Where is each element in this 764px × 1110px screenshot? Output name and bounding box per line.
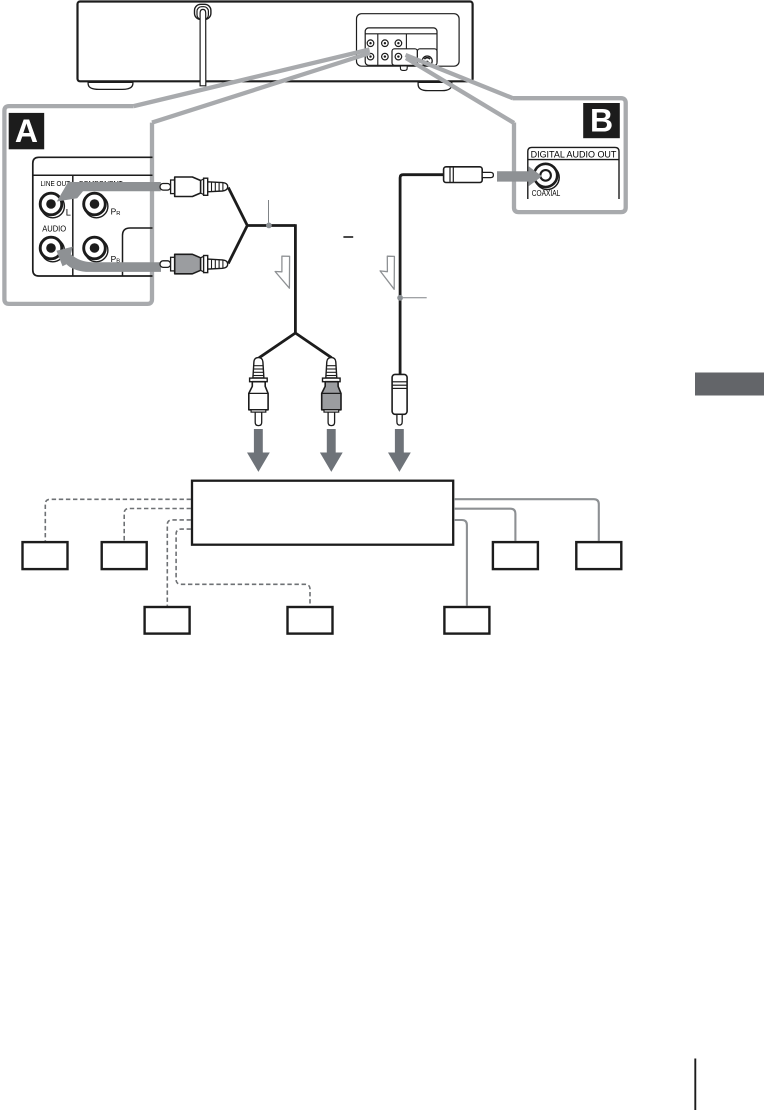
power cord <box>200 9 206 85</box>
jack Pb <box>382 53 389 60</box>
label B block <box>583 102 620 138</box>
SEC-PANEL-B <box>497 98 626 212</box>
solid wire S2 <box>454 509 515 541</box>
solid wire S3 <box>454 520 467 606</box>
audio cable Y wires <box>228 188 295 264</box>
speaker box 1 <box>23 542 68 569</box>
SEC-CALLOUTS <box>134 50 514 124</box>
power cord strain relief <box>195 4 211 19</box>
speaker box 7 <box>576 542 621 569</box>
white plug P1 ribs <box>208 182 228 192</box>
right foot <box>418 82 452 90</box>
jack Pr <box>395 40 402 47</box>
jack coaxial digital out <box>395 53 402 60</box>
DVD player rear chassis <box>78 2 473 82</box>
speaker box 2 <box>102 542 147 569</box>
coaxial jack <box>534 164 559 190</box>
callout line A2 <box>152 53 370 123</box>
A jack plate outline <box>33 157 153 276</box>
dashed wire D2 <box>124 509 191 541</box>
label A block <box>9 113 45 150</box>
svg-text:AUDIO: AUDIO <box>42 224 66 233</box>
down arrow 1 <box>247 429 270 472</box>
jack L out <box>367 40 374 47</box>
jack Pr magnified <box>84 193 108 218</box>
panel A frame <box>4 106 152 304</box>
signal flow half-arrow left <box>275 256 290 288</box>
arrow into jack R <box>57 247 162 272</box>
white plug P1 body <box>160 177 208 197</box>
RF connector sub-box <box>417 49 437 66</box>
gray plug P4 down <box>322 358 341 426</box>
signal flow half-arrow right <box>380 256 394 289</box>
svg-text:PR: PR <box>111 207 121 218</box>
audio cable trunk <box>259 224 332 358</box>
callout line B1 <box>406 55 513 98</box>
chapter tab <box>695 373 764 396</box>
gray plug P2 ribs <box>208 259 228 269</box>
dashed wire D4 <box>176 529 310 606</box>
svg-text:L: L <box>66 207 71 217</box>
coax cable run <box>400 175 444 375</box>
SEC-PANEL-A <box>4 106 161 304</box>
digital audio out label box <box>528 147 619 199</box>
solid wire S1 <box>454 499 599 541</box>
SEC-DEVICE <box>78 2 473 91</box>
A plate header line <box>33 174 153 176</box>
callout line A1 <box>134 50 370 107</box>
gray plug P2 body <box>160 254 208 273</box>
RF connector <box>422 56 432 66</box>
down arrow 2 <box>320 429 343 472</box>
node dot on audio cable <box>266 223 272 229</box>
jack plate divider 2 <box>405 34 407 49</box>
speaker box 3 <box>145 607 190 634</box>
svg-text:COAXIAL: COAXIAL <box>532 189 561 198</box>
svg-text:B: B <box>590 102 613 138</box>
node dot on coax cable <box>397 295 403 301</box>
white plug P3 down <box>249 358 268 426</box>
jack Pb magnified <box>84 237 108 262</box>
arrow into coaxial jack <box>497 166 542 187</box>
SEC-RECEIVER <box>23 481 622 634</box>
footer rule <box>694 1059 696 1110</box>
jack L <box>40 193 64 218</box>
receiver box <box>192 481 453 545</box>
A plate sub-box lines <box>123 228 153 276</box>
arrow into jack L <box>57 182 161 202</box>
jack plate <box>365 28 437 65</box>
rear panel inset <box>357 14 460 66</box>
SEC-FOOTER <box>695 373 764 1110</box>
jack plate header line <box>365 33 437 35</box>
coax plug vertical <box>392 374 407 425</box>
left foot <box>88 82 133 89</box>
digital out sub-box <box>392 49 417 66</box>
label strip underline <box>528 159 619 161</box>
SEC-CABLES <box>160 167 493 472</box>
speaker box 6 <box>493 542 538 569</box>
dashed wire D1 <box>45 499 191 541</box>
speaker box 5 <box>444 607 489 634</box>
callout line B2 <box>406 58 514 123</box>
jack R audio <box>40 237 64 262</box>
svg-text:DIGITAL AUDIO OUT: DIGITAL AUDIO OUT <box>531 148 617 159</box>
callout tick on coax cable <box>403 297 427 299</box>
plate bottom tab <box>400 66 407 71</box>
panel B frame <box>513 98 626 212</box>
jack plate divider 1 <box>377 34 379 66</box>
coax plug horizontal <box>444 167 494 183</box>
down arrow 3 <box>388 429 411 472</box>
jack Y <box>382 40 389 47</box>
A plate divider <box>72 175 74 276</box>
dashed wire D3 <box>167 520 191 606</box>
jack R out <box>367 53 374 60</box>
callout tick on audio cable <box>268 200 270 223</box>
speaker box 4 <box>288 607 333 634</box>
dash mark <box>343 236 353 238</box>
svg-text:A: A <box>15 113 38 149</box>
